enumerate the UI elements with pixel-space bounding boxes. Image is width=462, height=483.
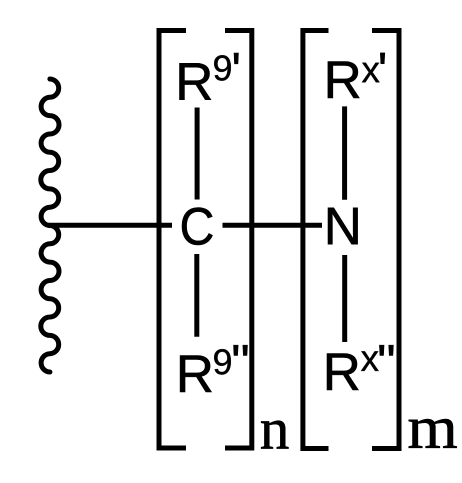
wire: bond N to Rx-doubleprime: [342, 255, 347, 342]
label prime of Rx': [380, 53, 384, 64]
atom N: [328, 208, 358, 244]
bracket n right: [225, 31, 252, 449]
subscript n: [261, 421, 288, 449]
wire: bond R9-prime to C: [195, 108, 200, 200]
wire: bond backbone to C: [48, 223, 172, 228]
label superscript 9 of R9': [214, 55, 231, 80]
subscript m: [409, 419, 457, 448]
wire: bond C to N: [223, 223, 323, 228]
wavy polymer backbone bond: [41, 79, 59, 372]
label prime of R9': [234, 53, 238, 64]
bracket m left: [303, 31, 329, 449]
label superscript x of Rx'': [361, 351, 379, 371]
bracket m right: [372, 31, 399, 449]
atom C: [182, 207, 213, 245]
wire: bond C to R9-doubleprime: [194, 254, 199, 337]
label R of Rx'' bottom-right: [327, 354, 358, 390]
label R of Rx' top-right: [328, 62, 359, 98]
label superscript x of Rx': [362, 63, 380, 83]
label R of R9'' bottom-left: [180, 356, 211, 392]
bracket n left: [159, 31, 186, 449]
label double prime of R9'': [234, 345, 248, 355]
label double prime of Rx'': [379, 345, 393, 355]
wire: bond Rx-prime to N: [342, 106, 347, 199]
label superscript 9 of R9'': [214, 349, 231, 374]
label R of R9' top-left: [179, 63, 210, 99]
